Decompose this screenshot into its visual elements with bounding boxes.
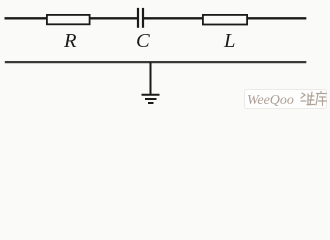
inductor L (203, 15, 247, 25)
glyph ku (316, 92, 327, 106)
wire: top-left segment to resistor (5, 17, 47, 19)
wire: inductor to top-right end (247, 17, 307, 19)
watermark (245, 90, 327, 109)
wire: resistor to capacitor (90, 17, 138, 19)
svg-text:R: R (63, 30, 77, 52)
ground (142, 95, 160, 103)
svg-text:WeeQoo: WeeQoo (247, 93, 294, 108)
resistor R (47, 15, 90, 24)
wire: ground stub (150, 62, 152, 94)
svg-text:C: C (136, 30, 150, 52)
capacitor C (138, 8, 143, 28)
glyph wei (301, 92, 315, 105)
svg-text:L: L (223, 30, 235, 52)
wire: bottom rail (5, 61, 307, 63)
wire: capacitor to inductor (143, 17, 203, 19)
